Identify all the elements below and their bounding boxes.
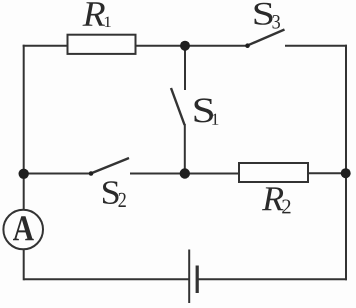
wire: right vertical [345, 45, 347, 281]
wire: bottom, battery negative plate to bottom-right corner [197, 278, 347, 280]
label A (ammeter dial) [13, 216, 34, 240]
wire: left vertical, ammeter bottom to bottom-left corner [23, 250, 25, 281]
junction node B (middle) [180, 168, 190, 178]
wire: top, S3 right contact to top-right corner [285, 45, 347, 47]
label R1 [82, 2, 104, 26]
battery BT1 positive plate (long) [188, 250, 190, 304]
wire: middle row, left junction to S2 hinge [24, 173, 91, 175]
switch S1 blade [171, 88, 185, 125]
wire: top, junction A to S3 hinge [185, 45, 248, 47]
wire: top, R1 to junction A [136, 45, 186, 47]
wire: middle vertical, junction A to S1 fixed contact [184, 46, 186, 90]
switch S2 hinge blob [89, 171, 94, 176]
label S3 [254, 3, 272, 25]
wire: middle vertical, S1 hinge to junction B [184, 124, 186, 174]
resistor R1 [68, 35, 136, 54]
switch S3 blade [247, 30, 285, 46]
battery BT1 negative plate (short) [196, 266, 199, 294]
wire: top, corner to R1 left lead [23, 45, 68, 47]
resistor R2 [239, 163, 308, 182]
junction node D (middle right) [341, 168, 351, 178]
label S1 [194, 98, 212, 122]
junction node A (top) [180, 41, 190, 51]
label R2 [262, 187, 284, 210]
ammeter A1 body [3, 210, 43, 250]
wire: bottom, corner to battery positive plate [24, 278, 189, 280]
switch S3 hinge blob [245, 43, 250, 48]
wire: left vertical, top corner to ammeter top [23, 45, 25, 210]
switch S2 blade [91, 158, 129, 174]
wire: middle row, S2 right contact to junction B [130, 173, 239, 175]
junction node C (middle left) [19, 169, 29, 179]
label S2 [103, 181, 118, 204]
wire: middle row, R2 to right junction [308, 172, 346, 174]
